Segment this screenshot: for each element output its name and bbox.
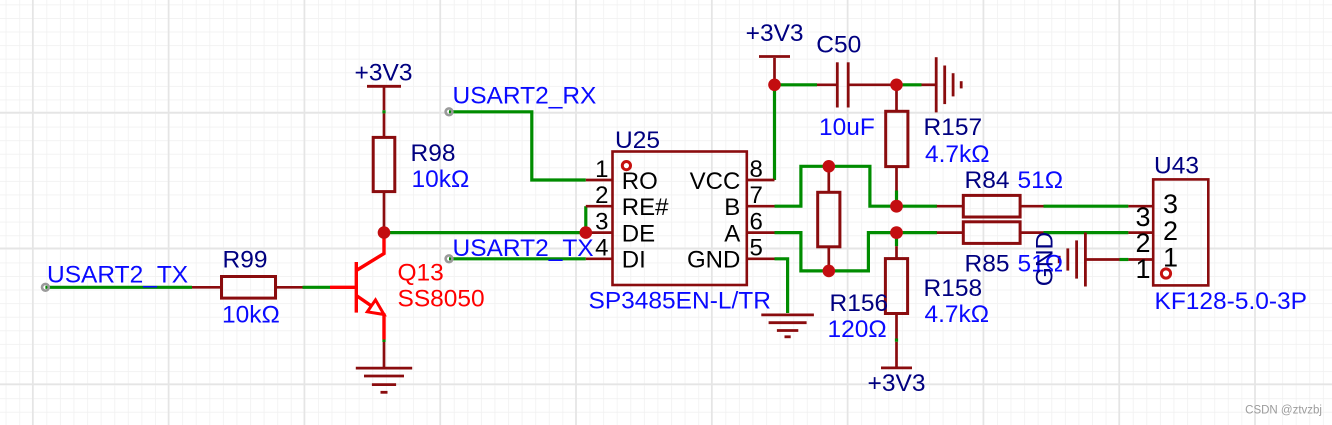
svg-text:SP3485EN-L/TR: SP3485EN-L/TR: [589, 288, 771, 315]
svg-text:DE: DE: [622, 220, 655, 247]
svg-text:1: 1: [1135, 254, 1150, 284]
svg-text:7: 7: [750, 182, 763, 209]
svg-text:SS8050: SS8050: [398, 286, 485, 313]
svg-text:VCC: VCC: [690, 168, 741, 195]
svg-text:1: 1: [1163, 243, 1178, 273]
svg-text:GND: GND: [687, 247, 740, 274]
svg-text:10kΩ: 10kΩ: [412, 166, 470, 193]
svg-text:120Ω: 120Ω: [828, 316, 887, 343]
svg-text:R84: R84: [965, 167, 1010, 194]
svg-text:R158: R158: [924, 275, 983, 302]
svg-text:51Ω: 51Ω: [1018, 167, 1064, 194]
svg-text:GND: GND: [1032, 232, 1059, 286]
svg-text:5: 5: [750, 235, 763, 262]
svg-text:U43: U43: [1154, 152, 1199, 179]
svg-text:8: 8: [750, 156, 763, 183]
svg-text:3: 3: [1163, 189, 1178, 219]
svg-text:DI: DI: [622, 247, 646, 274]
svg-text:10kΩ: 10kΩ: [222, 302, 280, 329]
svg-text:R85: R85: [965, 250, 1010, 277]
svg-text:3: 3: [595, 208, 608, 235]
svg-text:R98: R98: [411, 140, 456, 167]
svg-text:4: 4: [595, 235, 608, 262]
svg-text:4.7kΩ: 4.7kΩ: [925, 141, 990, 168]
svg-text:4.7kΩ: 4.7kΩ: [925, 301, 990, 328]
svg-text:RE#: RE#: [622, 194, 669, 221]
svg-text:USART2_TX: USART2_TX: [47, 262, 188, 289]
svg-text:C50: C50: [816, 32, 861, 59]
svg-text:A: A: [724, 220, 740, 247]
svg-text:Q13: Q13: [398, 260, 444, 287]
svg-text:2: 2: [595, 182, 608, 209]
svg-text:R156: R156: [830, 290, 889, 317]
svg-text:+3V3: +3V3: [355, 59, 413, 86]
svg-text:+3V3: +3V3: [868, 370, 926, 397]
svg-text:R99: R99: [223, 246, 268, 273]
svg-text:10uF: 10uF: [819, 114, 875, 141]
svg-text:USART2_TX: USART2_TX: [453, 235, 594, 262]
svg-text:1: 1: [595, 156, 608, 183]
svg-text:CSDN @ztvzbj: CSDN @ztvzbj: [1245, 405, 1322, 417]
svg-text:USART2_RX: USART2_RX: [453, 83, 597, 110]
svg-text:+3V3: +3V3: [746, 20, 804, 47]
svg-text:R157: R157: [924, 114, 983, 141]
svg-text:B: B: [724, 194, 740, 221]
svg-text:RO: RO: [622, 168, 658, 195]
svg-text:U25: U25: [615, 127, 660, 154]
svg-text:KF128-5.0-3P: KF128-5.0-3P: [1155, 288, 1308, 315]
svg-text:6: 6: [750, 208, 763, 235]
